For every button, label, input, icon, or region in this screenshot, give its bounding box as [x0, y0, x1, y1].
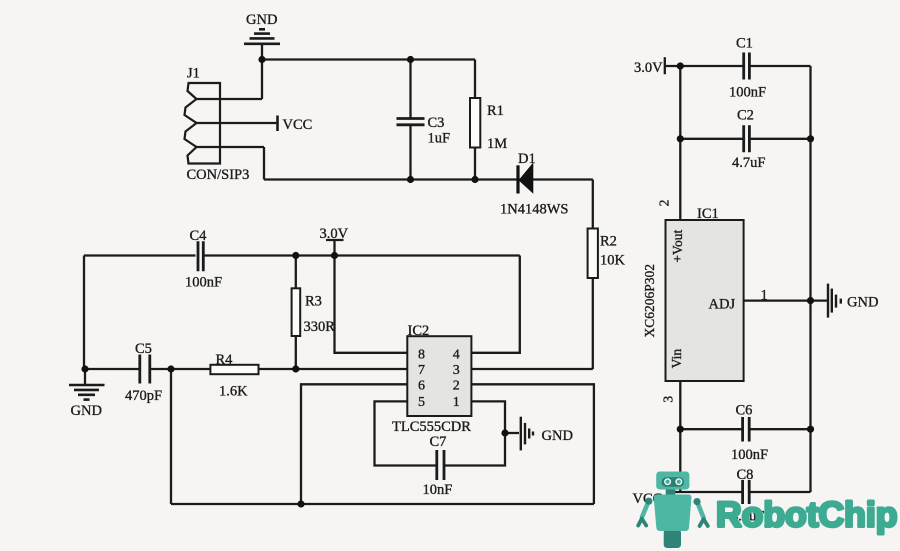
svg-text:GND: GND: [246, 12, 277, 28]
svg-text:GND: GND: [847, 295, 878, 311]
svg-text:4: 4: [453, 348, 460, 363]
svg-text:1M: 1M: [487, 136, 507, 152]
svg-text:R4: R4: [216, 352, 234, 368]
svg-text:TLC555CDR: TLC555CDR: [392, 419, 471, 435]
svg-text:100nF: 100nF: [729, 85, 766, 101]
svg-text:10K: 10K: [600, 253, 626, 269]
svg-text:R3: R3: [305, 294, 322, 310]
svg-text:4.7uF: 4.7uF: [732, 155, 765, 171]
svg-text:D1: D1: [518, 151, 536, 167]
svg-text:C4: C4: [190, 228, 208, 244]
svg-text:3.0V: 3.0V: [320, 226, 349, 242]
svg-text:3.0V: 3.0V: [634, 60, 663, 76]
svg-text:2: 2: [453, 379, 460, 394]
svg-text:C7: C7: [430, 434, 447, 450]
svg-text:IC2: IC2: [408, 323, 430, 339]
svg-text:CON/SIP3: CON/SIP3: [187, 167, 250, 183]
svg-text:R1: R1: [487, 103, 504, 119]
svg-text:+Vout: +Vout: [670, 230, 685, 263]
svg-text:RobotChip: RobotChip: [716, 495, 897, 535]
svg-text:10nF: 10nF: [423, 482, 453, 498]
svg-text:C8: C8: [737, 467, 754, 483]
svg-text:7: 7: [418, 363, 425, 378]
svg-text:3: 3: [661, 396, 676, 403]
svg-text:VCC: VCC: [283, 117, 313, 133]
svg-text:1uF: 1uF: [428, 131, 451, 147]
svg-text:3: 3: [453, 363, 460, 378]
svg-text:C3: C3: [428, 115, 445, 131]
svg-text:GND: GND: [71, 403, 102, 419]
svg-text:Vin: Vin: [669, 349, 684, 369]
svg-text:470pF: 470pF: [125, 388, 162, 404]
svg-text:8: 8: [418, 348, 425, 363]
svg-text:1N4148WS: 1N4148WS: [500, 202, 568, 218]
svg-text:100nF: 100nF: [731, 447, 768, 463]
svg-text:C1: C1: [736, 36, 753, 52]
svg-text:1: 1: [761, 288, 768, 304]
svg-text:GND: GND: [542, 428, 573, 444]
svg-text:C6: C6: [736, 403, 753, 419]
svg-text:J1: J1: [187, 66, 200, 82]
svg-text:XC6206P302: XC6206P302: [642, 264, 657, 338]
svg-text:C2: C2: [737, 108, 754, 124]
svg-text:5: 5: [418, 395, 425, 410]
svg-text:6: 6: [418, 379, 425, 394]
svg-text:1.6K: 1.6K: [219, 384, 248, 400]
svg-text:1: 1: [453, 395, 460, 410]
svg-text:IC1: IC1: [697, 206, 719, 222]
svg-text:C5: C5: [135, 341, 152, 357]
svg-text:330R: 330R: [304, 319, 336, 335]
svg-text:100nF: 100nF: [185, 275, 222, 291]
svg-text:2: 2: [657, 200, 672, 207]
svg-text:R2: R2: [600, 234, 617, 250]
svg-text:ADJ: ADJ: [709, 297, 736, 313]
